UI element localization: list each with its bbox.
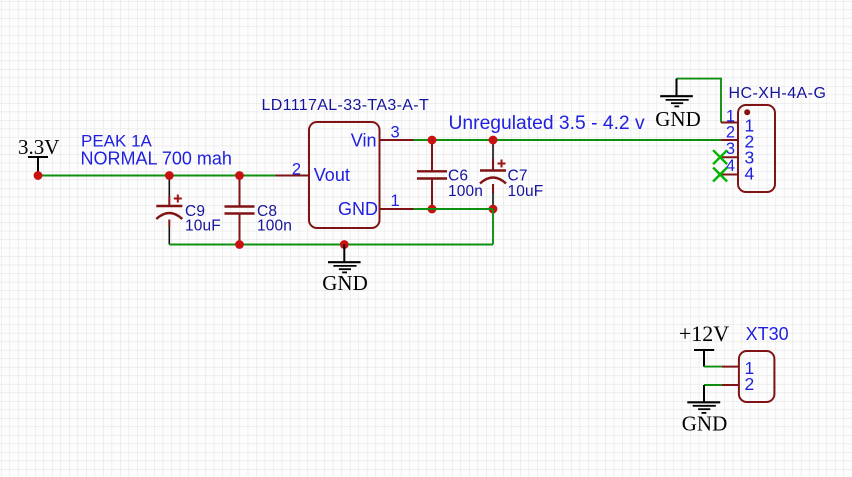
- svg-text:LD1117AL-33-TA3-A-T: LD1117AL-33-TA3-A-T: [262, 97, 430, 114]
- svg-text:C6: C6: [448, 168, 468, 185]
- svg-text:100n: 100n: [448, 183, 483, 200]
- node C6 bottom junction: [428, 205, 437, 214]
- power flag +12V: [679, 321, 729, 367]
- svg-text:Unregulated 3.5 - 4.2 v: Unregulated 3.5 - 4.2 v: [449, 113, 646, 134]
- node C7 bottom junction: [489, 205, 498, 214]
- svg-text:Vin: Vin: [351, 131, 377, 151]
- pin 1 (XT30): [722, 358, 755, 378]
- svg-text:2: 2: [745, 374, 755, 394]
- wire GND to XT30 pin 2: [704, 384, 722, 386]
- wire GND pin net: [414, 208, 494, 210]
- connector J2 XT30: [739, 324, 789, 402]
- svg-text:PEAK 1A: PEAK 1A: [81, 131, 153, 150]
- pin 3 (Vin): [380, 124, 414, 142]
- pin 1 marker dot: [744, 109, 750, 115]
- no-connect X pin 3: [713, 150, 727, 164]
- capacitor C9: [156, 176, 182, 245]
- label GND (top right): [655, 107, 701, 131]
- svg-text:4: 4: [726, 157, 735, 175]
- svg-text:GND: GND: [682, 411, 728, 435]
- capacitor C6: [417, 140, 447, 209]
- wire HC pin1 to ground, vertical: [720, 78, 722, 123]
- svg-text:HC-XH-4A-G: HC-XH-4A-G: [729, 85, 827, 102]
- pin 1 (GND): [380, 192, 414, 210]
- pin 2 (HC): [721, 124, 754, 152]
- net label Unregulated 3.5 - 4.2 v: [449, 113, 646, 134]
- svg-text:NORMAL 700 mah: NORMAL 700 mah: [81, 149, 232, 169]
- pin 4 (HC): [721, 157, 755, 184]
- node C8 bottom junction: [235, 240, 244, 249]
- node C8 top junction: [235, 171, 244, 180]
- wire bottom ground rail: [169, 244, 493, 246]
- svg-text:10uF: 10uF: [508, 183, 544, 200]
- wire 3.3V rail: [38, 175, 276, 177]
- svg-text:GND: GND: [338, 199, 378, 219]
- connector J1 HC-XH-4A-G: [729, 85, 827, 192]
- svg-text:100n: 100n: [257, 217, 292, 234]
- ground symbol (XT30): [687, 385, 720, 413]
- svg-text:XT30: XT30: [746, 324, 789, 344]
- label GND (main): [322, 271, 368, 295]
- svg-text:GND: GND: [322, 271, 368, 295]
- svg-text:4: 4: [745, 164, 755, 184]
- pin 2 (XT30): [722, 374, 755, 394]
- ground symbol (main): [328, 245, 361, 273]
- svg-text:2: 2: [292, 161, 301, 179]
- label C8 100n: [257, 203, 292, 234]
- regulator U1 LD1117AL-33-TA3-A-T: [262, 97, 430, 228]
- capacitor C7: [480, 140, 506, 210]
- svg-text:GND: GND: [655, 107, 701, 131]
- svg-text:C7: C7: [508, 168, 528, 185]
- node C9 top junction: [165, 171, 174, 180]
- svg-text:1: 1: [391, 192, 400, 210]
- ground symbol (top right): [660, 79, 693, 107]
- wire C7 bottom drop: [492, 209, 494, 245]
- capacitor C8: [225, 176, 255, 245]
- node 3.3V junction: [34, 171, 43, 180]
- pin 3 (HC): [721, 140, 754, 168]
- label GND (XT30): [682, 411, 728, 435]
- svg-text:+12V: +12V: [679, 321, 729, 346]
- svg-text:Vout: Vout: [314, 165, 350, 185]
- net label PEAK 1A / NORMAL 700 mah: [81, 131, 232, 168]
- wire HC pin1 to ground, horizontal: [677, 78, 722, 80]
- label C9 10uF: [185, 203, 221, 234]
- label C6 100n: [448, 168, 483, 201]
- pin 2 (Vout): [276, 161, 310, 179]
- pin 1 (HC): [721, 108, 754, 136]
- svg-text:3: 3: [726, 140, 735, 158]
- node GND junction: [340, 240, 349, 249]
- wire unregulated net: [414, 139, 722, 141]
- node C7 top junction: [489, 136, 498, 145]
- wire +12V to XT30 pin 1: [704, 366, 722, 368]
- node C6 top junction: [428, 136, 437, 145]
- svg-text:3.3V: 3.3V: [18, 135, 59, 159]
- label C7 10uF: [508, 168, 544, 201]
- svg-text:3: 3: [391, 124, 400, 142]
- power flag 3.3V: [18, 135, 59, 176]
- svg-text:10uF: 10uF: [185, 217, 221, 234]
- no-connect X pin 4: [713, 168, 727, 182]
